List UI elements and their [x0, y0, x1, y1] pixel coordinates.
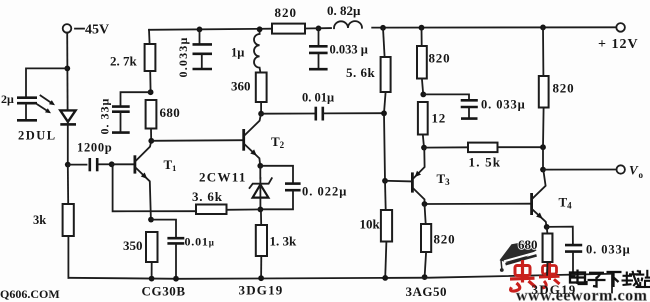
- svg-text:V: V: [629, 163, 639, 178]
- svg-text:0. 033μ: 0. 033μ: [481, 98, 526, 112]
- resistor R16 680 out redraw over watermark: [543, 234, 553, 275]
- node rail 350: [149, 276, 155, 282]
- node 0.33u tap: [148, 89, 154, 95]
- resistor R8 820 top: [272, 24, 305, 34]
- svg-text:T4: T4: [559, 195, 573, 211]
- wire 5.6k to node: [384, 92, 386, 113]
- node rail 1.3k: [258, 275, 264, 281]
- rail segment: [305, 27, 331, 29]
- node 680 rail: [544, 272, 550, 278]
- resistor R9 5.6k: [381, 57, 391, 92]
- node 1.5k left: [421, 145, 427, 151]
- wire to output node: [542, 147, 544, 169]
- node T2 emitter: [257, 163, 263, 169]
- svg-text:350: 350: [123, 238, 143, 253]
- wire 3.6k to zener: [227, 208, 261, 210]
- wire T3 base: [385, 180, 411, 183]
- node T1 collector: [148, 138, 154, 144]
- watermark text zai: [622, 270, 640, 287]
- wire to 10k: [384, 181, 387, 210]
- node 820b top: [419, 25, 425, 31]
- svg-text:Q606.COM: Q606.COM: [0, 287, 60, 301]
- rail stub right: [611, 274, 613, 293]
- resistor R7 1.3k: [256, 225, 267, 256]
- node junction photodiode top: [64, 66, 70, 72]
- svg-text:820: 820: [553, 81, 575, 96]
- capacitor C2 1200p: [90, 158, 112, 171]
- wire 2.7k to node: [149, 71, 151, 92]
- wire left supply column: [66, 33, 68, 109]
- wire 5.6k from rail: [383, 28, 385, 57]
- svg-text:0.033 μ: 0.033 μ: [330, 43, 368, 57]
- wire 820c from rail: [542, 27, 544, 76]
- node output: [540, 167, 546, 173]
- svg-text:820: 820: [275, 5, 298, 20]
- wire 680 to node: [150, 129, 152, 141]
- svg-text:3DG19: 3DG19: [239, 283, 284, 298]
- capacitor C7 0.01u bypass: [151, 220, 184, 279]
- wire 820d leads: [425, 204, 427, 277]
- wire 10k to rail: [385, 242, 386, 279]
- node 0.033u tap: [197, 27, 203, 33]
- svg-text:820: 820: [429, 51, 451, 66]
- inductor L2 0.82u: [334, 21, 362, 28]
- node 820-coil: [316, 26, 322, 32]
- resistor R2 2.7k: [145, 44, 156, 71]
- svg-text:T2: T2: [271, 134, 285, 150]
- node 1.5k right: [540, 144, 546, 150]
- svg-text:0. 022μ: 0. 022μ: [302, 185, 347, 199]
- wire 680 leads: [546, 227, 549, 275]
- svg-text:680: 680: [518, 237, 538, 252]
- node cap rail: [570, 271, 576, 277]
- svg-text:T3: T3: [437, 171, 451, 187]
- capacitor C3 0.033u: [193, 29, 213, 69]
- wire 360 to node: [260, 102, 262, 114]
- wire 1.3k to rail: [260, 256, 262, 278]
- svg-text:360: 360: [231, 79, 251, 94]
- node rail 10k: [382, 275, 388, 281]
- zener D2 2CW11: [250, 166, 272, 209]
- node rail 1u: [257, 26, 263, 32]
- wire 3k column: [67, 165, 69, 204]
- wire 1.3k column: [260, 209, 262, 225]
- svg-text:45V: 45V: [85, 23, 109, 38]
- bottom rail: [68, 274, 612, 279]
- light arrows: [38, 96, 56, 114]
- wire 350 to rail: [151, 262, 153, 279]
- wire to 2u cap: [26, 68, 67, 96]
- resistor R13 1.5k: [468, 143, 498, 153]
- svg-text:2μ: 2μ: [1, 92, 14, 106]
- resistor R15 820 emitter T3: [421, 224, 431, 252]
- resistor R3 680: [146, 100, 157, 129]
- watermark text dian: [570, 270, 587, 285]
- svg-text:3. 6k: 3. 6k: [192, 189, 223, 204]
- terminal Vo: [617, 163, 644, 181]
- resistor R10 10k: [381, 210, 392, 242]
- resistor R5 3.6k: [196, 205, 227, 215]
- svg-text:0.01μ: 0.01μ: [185, 235, 215, 249]
- node 820c top: [540, 25, 546, 31]
- transistor T3: [412, 150, 424, 204]
- watermark bug1: [510, 260, 536, 291]
- node T1 base: [109, 161, 115, 167]
- svg-text:2DUL: 2DUL: [18, 129, 57, 143]
- watermark text xia: [607, 272, 622, 287]
- capacitor C4 0.33u: [112, 107, 130, 133]
- wire to 0.033u right: [423, 94, 469, 99]
- svg-text:0.033μ: 0.033μ: [176, 36, 190, 77]
- svg-text:10k: 10k: [360, 217, 381, 232]
- watermark text zi: [588, 273, 606, 287]
- wire T1 emitter node: [148, 217, 154, 223]
- capacitor C6 0.022u: [260, 166, 300, 210]
- svg-text:12: 12: [432, 111, 447, 126]
- resistor R1 3k: [63, 204, 74, 236]
- wire 820b to node: [422, 79, 423, 95]
- svg-text:820: 820: [434, 232, 456, 247]
- watermark bug2: [539, 261, 560, 288]
- node 5.6k top: [380, 25, 386, 31]
- wire down to T3 base node: [384, 113, 385, 180]
- inductor L1 1u: [254, 29, 260, 72]
- wire 2.7k from rail: [148, 30, 151, 44]
- photodiode D1 2DUL: [60, 110, 76, 164]
- resistor R4 360: [256, 73, 267, 103]
- wire 820c to node: [542, 108, 545, 148]
- wire to 1200p: [68, 164, 87, 166]
- wire node to T2 base: [151, 139, 242, 142]
- column 820b / 12: [421, 28, 423, 46]
- svg-text:3k: 3k: [33, 213, 46, 227]
- wire 1.5k right: [498, 146, 544, 148]
- svg-text:0. 01μ: 0. 01μ: [302, 91, 334, 105]
- wire T3 collector to node: [423, 148, 425, 150]
- top rail left segment: [149, 29, 272, 30]
- resistor R6 350: [146, 232, 158, 262]
- svg-text:o: o: [639, 170, 644, 180]
- capacitor C1 2u: [17, 98, 37, 121]
- wire 3k to rail: [67, 236, 69, 278]
- wire 1.5k left: [424, 146, 468, 148]
- wire base T1: [112, 163, 134, 165]
- node T2 collector: [258, 111, 264, 117]
- svg-text:1200p: 1200p: [77, 141, 112, 155]
- node 0.033u tap right: [420, 92, 426, 98]
- terminal -45V: [63, 23, 109, 38]
- watermark swoosh logo: [500, 242, 537, 272]
- resistor R16 680 out: [543, 234, 553, 263]
- svg-text:0. 33μ: 0. 33μ: [98, 98, 112, 135]
- node 820d rail: [422, 274, 428, 280]
- wire 12 to node: [423, 135, 424, 148]
- svg-text:1μ: 1μ: [231, 46, 244, 60]
- node diode bottom: [65, 162, 71, 168]
- capacitor C10 0.033u out: [547, 227, 583, 275]
- resistor R14 820 right: [539, 76, 549, 108]
- node 0.01u right: [381, 110, 387, 116]
- node T3 base: [382, 178, 388, 184]
- svg-text:680: 680: [160, 105, 181, 120]
- svg-text:0. 82μ: 0. 82μ: [327, 3, 361, 18]
- capacitor C9 0.033u right: [461, 100, 478, 118]
- transistor T1: [135, 141, 151, 219]
- resistor R11 820: [417, 46, 427, 79]
- svg-text:3AG50: 3AG50: [406, 284, 448, 299]
- terminal +12V: [598, 23, 639, 52]
- svg-text:1. 3k: 1. 3k: [270, 234, 298, 249]
- node T3 collector: [422, 201, 428, 207]
- resistor R12 12: [418, 102, 428, 135]
- transistor T4: [532, 170, 547, 226]
- svg-text:3DG19: 3DG19: [532, 282, 577, 297]
- wire output: [543, 169, 616, 171]
- svg-text:2. 7k: 2. 7k: [110, 54, 138, 69]
- svg-text:T1: T1: [164, 157, 177, 173]
- capacitor C8 0.033u mid: [309, 28, 328, 69]
- node zener bottom: [258, 207, 264, 213]
- svg-text:1. 5k: 1. 5k: [469, 155, 502, 170]
- svg-text:CG30B: CG30B: [142, 284, 186, 299]
- svg-text:2CW11: 2CW11: [199, 170, 247, 185]
- svg-text:0. 033μ: 0. 033μ: [586, 243, 631, 257]
- wire T3 collector to T4 base: [425, 203, 531, 205]
- wire to 0.33u: [121, 92, 151, 105]
- node T4 emitter: [544, 224, 550, 230]
- watermark text zhan: [636, 270, 650, 287]
- capacitor C5 0.01u coupling: [261, 107, 383, 121]
- node rail 0.01u: [173, 276, 179, 282]
- top rail right segment: [372, 26, 616, 28]
- svg-text:+ 12V: + 12V: [598, 37, 639, 52]
- svg-text:5. 6k: 5. 6k: [346, 65, 376, 80]
- transistor T2: [244, 114, 261, 166]
- wire base feedback: [113, 164, 196, 211]
